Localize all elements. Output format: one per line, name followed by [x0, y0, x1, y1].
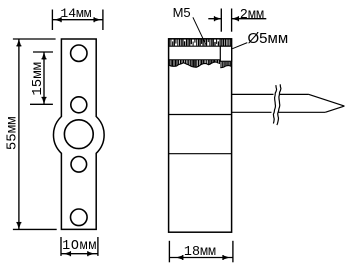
- svg-text:55мм: 55мм: [5, 116, 21, 150]
- svg-text:18мм: 18мм: [184, 245, 216, 260]
- svg-text:M5: M5: [173, 5, 191, 20]
- svg-text:Ø5мм: Ø5мм: [248, 30, 289, 47]
- svg-text:2мм: 2мм: [240, 8, 264, 23]
- svg-text:15мм: 15мм: [30, 62, 46, 96]
- svg-text:14мм: 14мм: [60, 6, 91, 21]
- svg-text:1Oмм: 1Oмм: [62, 239, 97, 254]
